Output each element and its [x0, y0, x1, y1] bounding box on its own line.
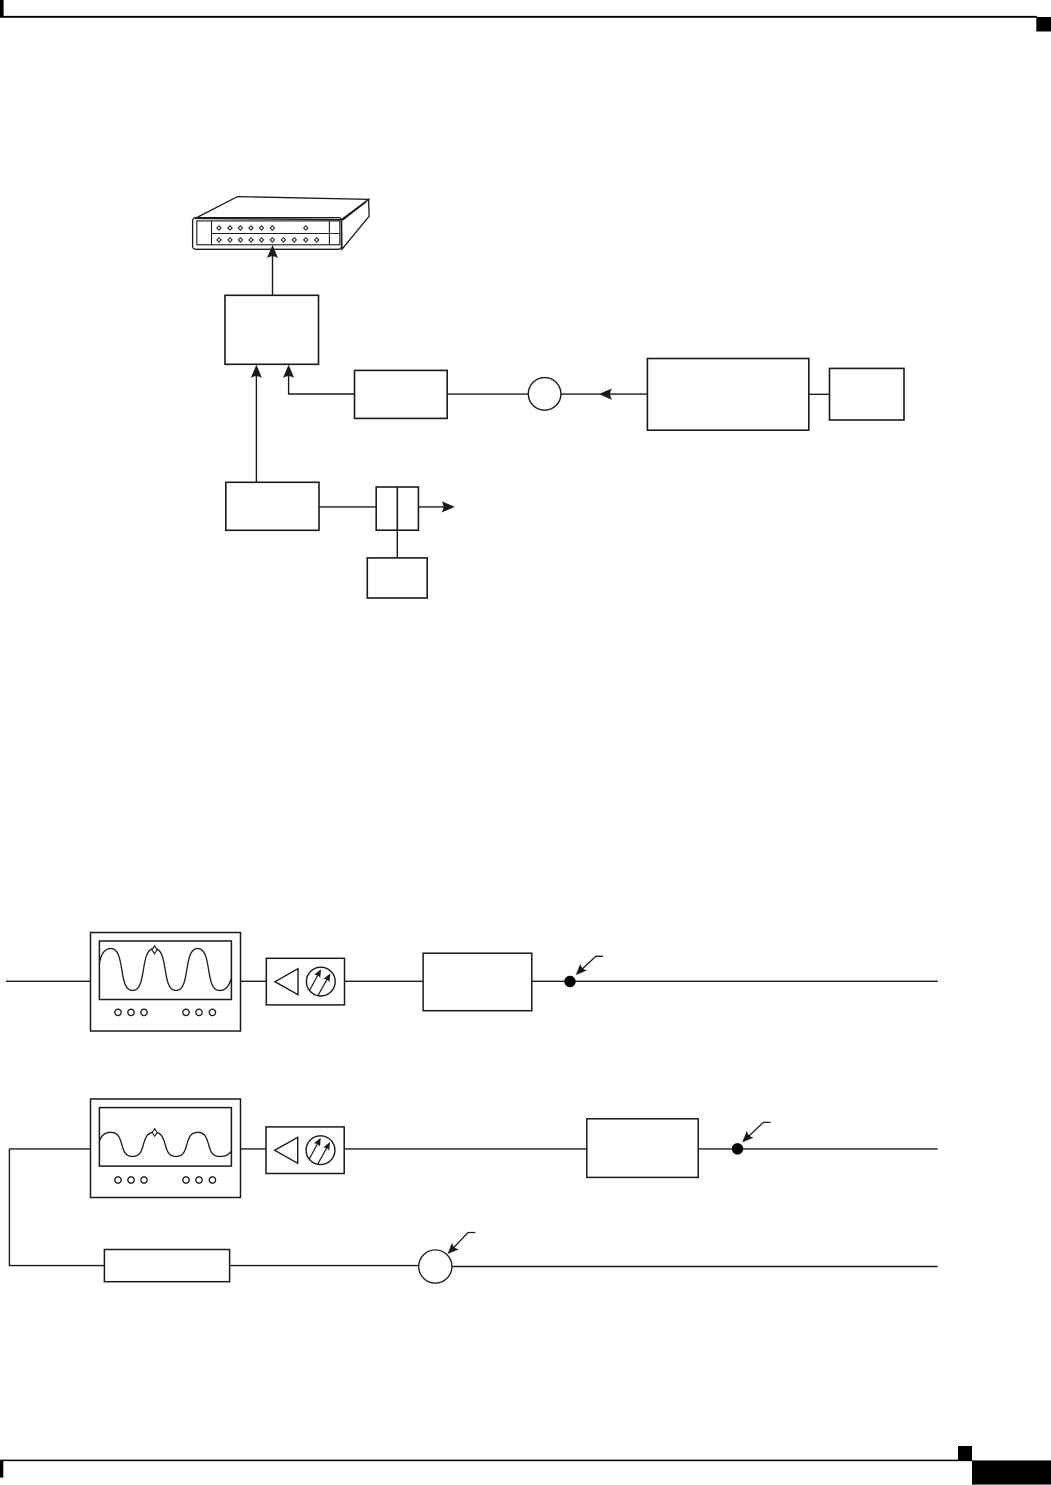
- arrow box2 to device: [267, 245, 278, 295]
- wire circle row3 to right: [452, 1266, 938, 1268]
- amplifier-attenuator B: [266, 1127, 344, 1174]
- box mid (4): [355, 370, 448, 418]
- wire box row3 to circle: [230, 1265, 419, 1267]
- wire into scope A: [6, 980, 91, 982]
- box B: [587, 1119, 698, 1178]
- wire box B to right: [698, 1148, 938, 1150]
- oscilloscope B: [91, 1099, 241, 1198]
- box right small (8): [830, 368, 905, 420]
- device port diamonds row 2: [217, 238, 319, 242]
- footer rule: [0, 1459, 972, 1461]
- arrow box9 to box2: [251, 365, 262, 483]
- footer page number block: [972, 1460, 1051, 1484]
- wire into scope B: [9, 1148, 90, 1150]
- tap dot B: [732, 1143, 743, 1154]
- circle row3: [419, 1250, 452, 1283]
- wire box A to right: [532, 980, 938, 982]
- box lower left (9): [226, 482, 319, 530]
- wire box7 to box8: [809, 393, 830, 395]
- box bottom small (12): [367, 558, 427, 598]
- network device chassis: [193, 197, 370, 250]
- footer square marker: [958, 1446, 972, 1460]
- oscilloscope A: [91, 933, 241, 1032]
- tap dot A: [564, 976, 575, 987]
- box row3: [104, 1250, 229, 1282]
- wire box4 to circle: [447, 393, 528, 395]
- wire scope A to amplifier A: [241, 980, 267, 982]
- amplifier-attenuator A: [266, 958, 344, 1005]
- wire amplifier A to box A: [345, 980, 424, 982]
- arrow out of connector: [418, 501, 454, 512]
- device port diamonds row 1: [217, 226, 308, 230]
- footer left tick: [0, 1460, 3, 1477]
- callout arrow A: [572, 956, 602, 978]
- connector double box (10): [376, 487, 418, 530]
- feedback wire from scope B down to row 3: [9, 1149, 104, 1266]
- box upper (2): [225, 295, 319, 364]
- callout arrow row3: [444, 1233, 475, 1258]
- wire box9 to connector: [319, 506, 376, 508]
- header left tick: [0, 0, 4, 17]
- wire box7 to circle with left arrowhead: [561, 389, 647, 400]
- circle node: [528, 378, 561, 411]
- header corner square: [1036, 17, 1051, 32]
- header rule: [0, 16, 1037, 18]
- wire scope B to amplifier B: [241, 1148, 267, 1150]
- box right large (7): [647, 359, 808, 431]
- wire connector to box12: [396, 530, 398, 558]
- callout arrow B: [739, 1122, 771, 1145]
- arrow box4 to box2: [283, 365, 355, 394]
- wire amplifier B to box B: [344, 1148, 587, 1150]
- box A: [423, 953, 532, 1011]
